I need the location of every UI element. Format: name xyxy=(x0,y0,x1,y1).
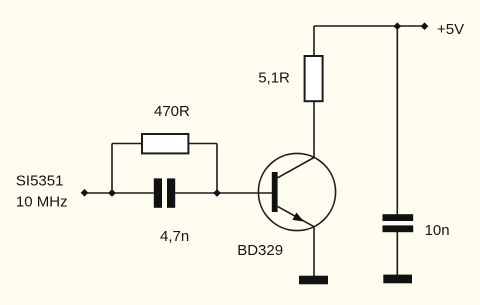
transistor base bar xyxy=(272,172,278,212)
wire branch vertical right xyxy=(216,144,218,194)
node junction right xyxy=(213,189,221,197)
svg-text:SI5351: SI5351 xyxy=(16,172,64,189)
wire right vertical lower xyxy=(396,232,398,275)
node input terminal xyxy=(81,189,89,197)
node junction top xyxy=(393,22,401,30)
svg-text:10n: 10n xyxy=(425,222,450,239)
svg-text:5,1R: 5,1R xyxy=(258,70,290,87)
transistor collector stroke xyxy=(278,158,314,178)
wire right vertical upper xyxy=(396,26,398,215)
wire branch top left xyxy=(112,143,141,145)
wire main horizontal right (cap right plate to base bar) xyxy=(175,192,272,194)
wire collector vertical xyxy=(313,26,315,158)
resistor R 470R xyxy=(142,134,188,153)
resistor R 5,1R xyxy=(305,56,323,101)
svg-text:10 MHz: 10 MHz xyxy=(16,194,68,211)
wire branch vertical left xyxy=(111,144,113,194)
transistor emitter stroke xyxy=(278,206,314,226)
capacitor 10n xyxy=(383,214,414,232)
svg-text:470R: 470R xyxy=(154,103,190,120)
transistor emitter arrow xyxy=(292,213,304,222)
svg-text:4,7n: 4,7n xyxy=(160,228,189,245)
svg-text:BD329: BD329 xyxy=(237,242,283,259)
transistor Q BD329 circle xyxy=(258,153,335,230)
wire emitter vertical xyxy=(313,227,315,276)
node junction left xyxy=(108,189,116,197)
svg-text:+5V: +5V xyxy=(437,21,464,38)
wire branch top right xyxy=(189,143,217,145)
capacitor 4,7n xyxy=(154,178,175,207)
wire main horizontal left (input to cap left plate) xyxy=(85,192,154,194)
wire top rail xyxy=(314,25,425,27)
node +5V terminal xyxy=(421,22,429,30)
ground (emitter) xyxy=(299,276,328,285)
ground (right) xyxy=(383,275,412,284)
